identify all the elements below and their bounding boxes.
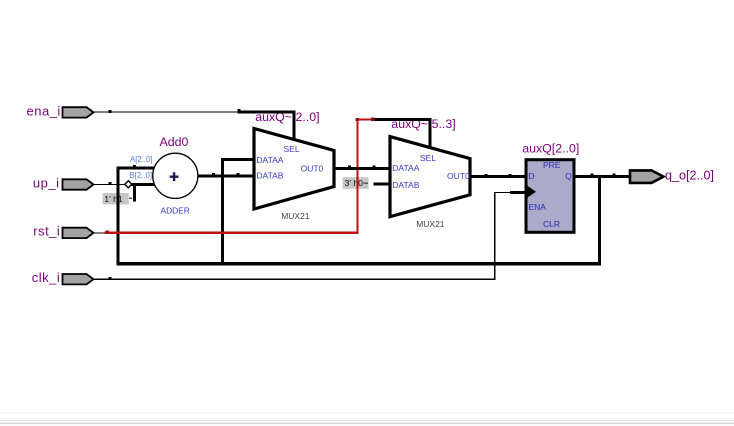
wire: feedback vertical to mux1 DATAA (x=222) (221, 158, 224, 265)
junction nub red top corner (356, 118, 359, 121)
svg-text:PRE: PRE (543, 160, 561, 170)
svg-text:OUT0: OUT0 (447, 171, 470, 181)
wire: ena_i thin (94, 111, 238, 112)
svg-text:Q: Q (565, 171, 572, 181)
svg-text:1' h1: 1' h1 (104, 194, 123, 204)
junction nub red at rst pin (106, 231, 110, 234)
wire: clk_i thin horizontal (94, 279, 495, 280)
wire: rst_i red horizontal (105, 232, 359, 234)
wire: rst red vertical (x=357) (356, 118, 358, 233)
window bottom edge lines (0, 412, 734, 426)
wire: mux1 OUT0 to mux2 DATAA (334, 167, 392, 170)
input pin ena_i (63, 107, 94, 117)
wire: up_i thin (94, 184, 125, 185)
mux1 MUX21 body (254, 129, 334, 210)
junction nub Q wire 2 (613, 174, 616, 177)
bus tap diamond on up_i (125, 181, 132, 188)
svg-text:ENA: ENA (529, 202, 547, 212)
wire: adder B input stub (131, 183, 156, 186)
output pin q_o (630, 170, 664, 183)
wire: dff Q output (574, 175, 630, 178)
junction nub red-black transition (371, 118, 374, 121)
junction nub out1 wire 2 (372, 165, 375, 168)
svg-text:DATAB: DATAB (256, 171, 283, 181)
junction nub ena thick start (238, 109, 241, 112)
svg-text:MUX21: MUX21 (416, 219, 445, 229)
wire: red horizontal top (to SEL2) (356, 118, 372, 120)
svg-text:DATAA: DATAA (256, 155, 283, 165)
svg-text:rst_i: rst_i (33, 224, 60, 239)
svg-text:OUT0: OUT0 (301, 163, 324, 173)
wire: SEL2 horizontal black (372, 118, 431, 121)
junction tick on up wire (109, 182, 112, 185)
dff auxQ register body (526, 160, 574, 233)
junction nub D wire 2 (508, 174, 511, 177)
wire: bottom feedback bus (y=263) (117, 262, 601, 266)
svg-text:MUX21: MUX21 (281, 211, 310, 221)
svg-text:CLR: CLR (543, 219, 560, 229)
input pin up_i (63, 179, 94, 189)
wire: constant 3'h0 stub to mux2 DATAB (373, 183, 391, 186)
wire: ena thick segment (y=112) (238, 110, 296, 113)
svg-text:ena_i: ena_i (26, 103, 60, 118)
wire: SEL2 vertical drop (428, 118, 431, 149)
wire: clk thick stub into dff (510, 191, 526, 194)
wire: SEL1 vertical drop (293, 110, 296, 140)
wire: rst_i thin black stub (94, 232, 106, 233)
constant 3'h0 (343, 177, 369, 189)
adder plus symbol (170, 172, 179, 181)
junction nub adder-out 2 (237, 173, 240, 176)
wire: clk thin horizontal to dff (494, 192, 510, 193)
constant 1'h1 (103, 193, 132, 204)
svg-text:ADDER: ADDER (161, 206, 190, 216)
junction nub adder-out 1 (212, 173, 215, 176)
svg-text:A[2..0]: A[2..0] (130, 155, 153, 164)
svg-text:3' h0: 3' h0 (345, 178, 364, 188)
svg-text:up_i: up_i (33, 175, 60, 190)
junction tick on ena wire (109, 110, 112, 113)
junction nub red-black transition (over) (371, 118, 374, 122)
svg-text:DATAB: DATAB (392, 180, 419, 190)
svg-text:DATAA: DATAA (392, 163, 419, 173)
junction tick on clk wire (109, 277, 112, 280)
svg-text:Add0: Add0 (160, 135, 189, 149)
junction nub Q wire 1 (591, 174, 594, 177)
svg-text:clk_i: clk_i (32, 270, 61, 285)
svg-text:auxQ[2..0]: auxQ[2..0] (522, 141, 579, 155)
dff clock triangle (528, 186, 537, 198)
svg-text:q_o[2..0]: q_o[2..0] (665, 168, 714, 182)
svg-text:D: D (529, 171, 535, 181)
wire: constant 1'h1 vertical (133, 184, 136, 201)
wire: clk thin vertical (494, 192, 495, 280)
wire: adder A input stub (117, 166, 156, 169)
input pin rst_i (63, 228, 94, 238)
junction nub out1 wire 1 (348, 165, 351, 168)
wire: mux1 DATAA stub (221, 158, 255, 161)
mux2 MUX21 body (390, 137, 470, 217)
wire: Q feedback vertical (x=600) (598, 175, 601, 265)
junction nub D wire 1 (485, 174, 488, 177)
junction nub on A stub (133, 165, 136, 168)
input pin clk_i (63, 274, 94, 284)
adder Add0 circle (153, 153, 198, 198)
svg-text:SEL: SEL (420, 153, 436, 163)
svg-text:B[2..0]: B[2..0] (130, 171, 153, 180)
svg-text:SEL: SEL (284, 144, 300, 154)
wire: mux2 OUT0 to dff D (470, 175, 527, 178)
wire: adder output to mux1 DATAB (196, 175, 254, 178)
wire: feedback vertical to adder A input (x=118) (117, 166, 120, 265)
